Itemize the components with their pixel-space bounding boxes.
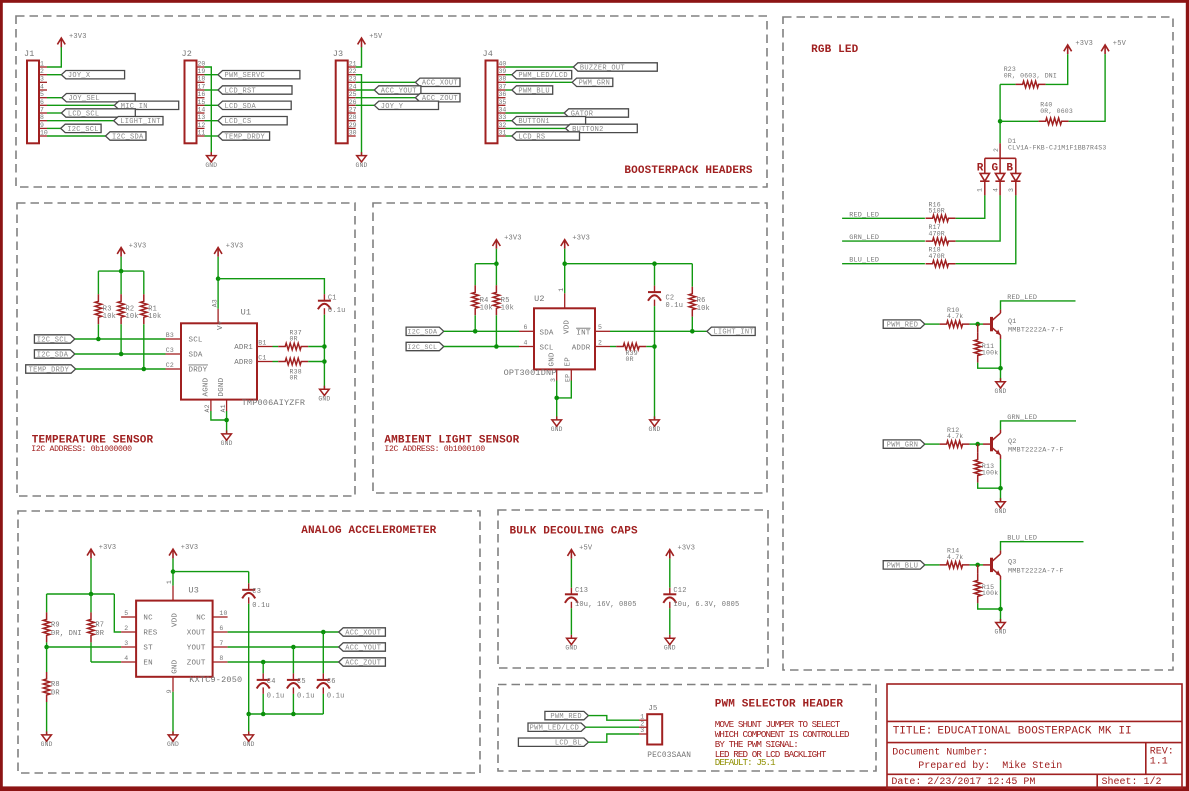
svg-text:SDA: SDA (189, 352, 203, 360)
svg-text:Date: 2/23/2017 12:45 PM: Date: 2/23/2017 12:45 PM (891, 776, 1035, 788)
svg-text:+3V3: +3V3 (1075, 40, 1093, 48)
svg-text:ACC_XOUT: ACC_XOUT (345, 629, 381, 637)
svg-text:C3: C3 (252, 588, 261, 596)
net flag LCD_RST (205, 86, 293, 96)
wire VDD branch to C2/R6 (565, 263, 693, 265)
power +3V3 at J1 (57, 33, 86, 47)
svg-text:ACC_YOUT: ACC_YOUT (345, 644, 381, 652)
svg-text:GND: GND (172, 659, 180, 673)
svg-text:10k: 10k (126, 313, 139, 321)
svg-text:PEC03SAAN: PEC03SAAN (647, 752, 691, 760)
svg-text:A1: A1 (220, 404, 227, 412)
svg-text:33: 33 (499, 114, 507, 121)
svg-text:BUTTON1: BUTTON1 (518, 118, 550, 126)
resistor R18 470R (926, 247, 956, 267)
net flag BUTTON1 (506, 117, 586, 127)
svg-text:GND: GND (318, 395, 330, 402)
net flag JOY_X (47, 71, 125, 81)
junction AGND/DGND (224, 418, 229, 423)
resistor R9 0R DNI (43, 594, 82, 647)
wire YOUT row (228, 646, 339, 648)
svg-text:ADR0: ADR0 (234, 359, 253, 367)
svg-text:4.7k: 4.7k (947, 554, 963, 561)
svg-text:1: 1 (640, 713, 644, 720)
net flag LIGHT_INT (J1) (47, 117, 163, 127)
svg-text:+5V: +5V (1113, 40, 1127, 48)
junction U2 GND/EP (554, 396, 559, 401)
resistor R17 470R (926, 224, 956, 244)
svg-text:5: 5 (40, 91, 44, 98)
svg-text:RES: RES (143, 630, 157, 638)
capacitor C4 0.1u (257, 662, 285, 714)
net flag GATOR (506, 109, 629, 119)
ground GND at U2 (551, 416, 563, 433)
svg-text:36: 36 (499, 91, 507, 98)
wire U3 pin9 to GND (172, 692, 174, 735)
svg-text:+3V3: +3V3 (226, 243, 244, 251)
section box PWM SELECTOR HEADER (498, 685, 876, 772)
resistor R8 0R (43, 647, 60, 735)
svg-text:4.7k: 4.7k (947, 433, 963, 440)
svg-text:1: 1 (977, 188, 984, 192)
capacitor C3 0.1u (242, 572, 270, 714)
net flag PWM_GRN (Q stage) (883, 440, 939, 450)
wire GRN_LED to D1 (842, 240, 925, 242)
svg-text:VDD: VDD (563, 320, 571, 334)
svg-text:32: 32 (499, 122, 507, 129)
svg-text:9: 9 (166, 689, 173, 693)
net flag LCD_SDA (205, 101, 292, 111)
ground GND at C12 (664, 635, 676, 652)
svg-text:OPT3001DNP: OPT3001DNP (504, 368, 557, 378)
wire pullup rail (98, 270, 143, 272)
svg-text:J1: J1 (24, 49, 35, 59)
svg-text:0R: 0R (95, 630, 104, 638)
junction R1 on DRDY (142, 367, 147, 372)
svg-text:J4: J4 (483, 49, 494, 59)
svg-text:EP: EP (564, 357, 572, 367)
connector J4 (483, 49, 507, 143)
junction pullup rail U2 (494, 261, 499, 266)
svg-text:34: 34 (499, 106, 507, 113)
svg-text:7: 7 (219, 640, 223, 647)
svg-text:12: 12 (198, 122, 206, 129)
svg-text:VDD: VDD (172, 613, 180, 627)
svg-text:JOY_SEL: JOY_SEL (68, 95, 100, 103)
svg-text:PWM_LED/LCD: PWM_LED/LCD (518, 72, 568, 80)
svg-text:MMBT2222A-7-F: MMBT2222A-7-F (1008, 327, 1064, 335)
wire rail R9/R7 (47, 593, 115, 595)
power +3V3 at U2 (561, 235, 590, 249)
svg-text:GND: GND (565, 645, 577, 652)
svg-text:14: 14 (198, 106, 206, 113)
svg-text:KXTC9-2050: KXTC9-2050 (189, 675, 242, 685)
svg-text:GND: GND (356, 162, 368, 169)
power +3V3 at pullups U1 (117, 243, 146, 257)
power +3V3 at R23 (1064, 40, 1093, 54)
svg-text:Q1: Q1 (1008, 318, 1017, 326)
connector J1 (24, 49, 48, 143)
svg-text:EDUCATIONAL BOOSTERPACK MK II: EDUCATIONAL BOOSTERPACK MK II (937, 725, 1131, 737)
svg-text:LCD_SDA: LCD_SDA (225, 103, 257, 111)
svg-text:10: 10 (40, 129, 48, 136)
net flag PWM_SERVC (205, 71, 300, 81)
svg-text:8: 8 (40, 114, 44, 121)
svg-text:29: 29 (349, 122, 357, 129)
svg-text:PWM_BLU: PWM_BLU (518, 87, 550, 95)
ground GND at R8 (41, 731, 53, 748)
svg-text:7: 7 (40, 106, 44, 113)
IC U3 KXTC9-2050 (121, 580, 228, 693)
junction R5 on SCL (494, 344, 499, 349)
wire R7 to EN (91, 661, 121, 663)
svg-text:3: 3 (640, 727, 644, 734)
power +3V3 at U3 (169, 544, 198, 558)
net flag LCD_RS (506, 132, 580, 142)
wire J3 pin22 to GND (356, 75, 362, 156)
wire emitter Q1 to GND (1000, 339, 1002, 382)
wire +3V3 down to U3 VDD (172, 558, 174, 585)
net flag PWM_BLU (Q stage) (883, 561, 939, 571)
svg-text:10k: 10k (148, 313, 161, 321)
svg-text:0.1u: 0.1u (327, 692, 345, 700)
ground GND at C3 (243, 731, 255, 748)
svg-text:100k: 100k (982, 349, 998, 356)
net flag PWM_GRN (J4) (506, 78, 613, 88)
svg-text:GND: GND (41, 741, 53, 748)
svg-text:1.1: 1.1 (1150, 757, 1168, 768)
wire VDD branch to C3 (173, 571, 249, 573)
ground GND at Q3 (995, 619, 1007, 636)
svg-text:B: B (1006, 162, 1013, 174)
junction C2/R39 (652, 344, 657, 349)
svg-text:XOUT: XOUT (187, 630, 206, 638)
wire collector Q3 to BLU_LED (1001, 542, 1084, 551)
capacitor C13 10u (565, 559, 637, 635)
svg-text:SDA: SDA (540, 329, 554, 337)
ground GND at U1 (221, 430, 233, 447)
net flag LIGHT_INT (U2) (707, 327, 755, 337)
junction V+ branch (216, 276, 221, 281)
junction C6 on XOUT (321, 630, 326, 635)
svg-text:0R: 0R (290, 335, 298, 342)
net flag ACC_XOUT (J3) (356, 78, 460, 88)
svg-text:10k: 10k (480, 305, 493, 313)
svg-text:GND: GND (995, 629, 1007, 636)
svg-text:I2C_SCL: I2C_SCL (37, 336, 69, 344)
wire +3V3 to pullup rail U2 (495, 249, 497, 264)
svg-text:GND: GND (243, 741, 255, 748)
resistor R7 0R (88, 594, 105, 662)
svg-text:C6: C6 (327, 678, 336, 686)
net flag I2C_SCL (U2) (406, 342, 519, 351)
wire DGND to GND (226, 411, 228, 434)
svg-text:0R, DNI: 0R, DNI (51, 630, 82, 638)
resistor R39 0R (610, 343, 655, 363)
connector J2 (182, 49, 206, 143)
svg-text:PWM_LED/LCD: PWM_LED/LCD (530, 725, 580, 733)
svg-text:GND: GND (205, 162, 217, 169)
net flag PWM_RED (J5) (545, 711, 639, 721)
svg-text:0R: 0R (51, 689, 60, 697)
section box TEMPERATURE SENSOR (17, 203, 355, 496)
net flag TEMP_DRDY (J2) (205, 132, 270, 142)
svg-text:ANALOG ACCELEROMETER: ANALOG ACCELEROMETER (301, 525, 436, 537)
svg-text:MMBT2222A-7-F: MMBT2222A-7-F (1008, 567, 1064, 575)
svg-text:3: 3 (1008, 188, 1015, 192)
transistor Q1 MMBT2222A-7-F (983, 310, 1064, 340)
power +5V at R40 (1101, 40, 1126, 54)
ground GND at C1 (318, 386, 330, 403)
svg-text:31: 31 (499, 129, 507, 136)
svg-text:C5: C5 (297, 678, 306, 686)
svg-text:17: 17 (198, 83, 206, 90)
power +3V3 at R9/R7 (87, 544, 116, 558)
svg-text:30: 30 (349, 129, 357, 136)
svg-text:3: 3 (124, 640, 128, 647)
wire +3V3 to rail U3 (90, 558, 92, 594)
junction R6 on INT (690, 329, 695, 334)
svg-text:I2C_SDA: I2C_SDA (112, 133, 144, 141)
resistor R12 4.7k (940, 427, 983, 448)
svg-text:0.1u: 0.1u (666, 302, 684, 310)
power +5V at C13 (568, 545, 593, 559)
wire C1 to GND rail (323, 315, 325, 390)
net flag ACC_ZOUT (U3) (339, 658, 386, 668)
svg-text:JOY_Y: JOY_Y (381, 103, 404, 111)
junction R9/ST (44, 645, 49, 650)
svg-text:Sheet: 1/2: Sheet: 1/2 (1102, 776, 1162, 788)
IC U1 TMP006AIYZFR (166, 299, 273, 412)
svg-text:3: 3 (40, 76, 44, 83)
svg-text:5: 5 (124, 610, 128, 617)
svg-text:0R: 0R (626, 356, 634, 363)
svg-text:ACC_XOUT: ACC_XOUT (422, 80, 458, 88)
section box BOOSTERPACK HEADERS (16, 16, 767, 187)
svg-text:I2C ADDRESS: 0b1000000: I2C ADDRESS: 0b1000000 (31, 444, 132, 454)
svg-text:PWM_RED: PWM_RED (550, 713, 582, 721)
svg-text:I2C ADDRESS: 0b1000100: I2C ADDRESS: 0b1000100 (384, 444, 485, 454)
net flag I2C_SDA (J1) (47, 132, 146, 142)
power +3V3 at U1 (214, 243, 243, 257)
junction C2 top (652, 261, 657, 266)
resistor R38 0R (273, 358, 325, 381)
svg-text:+3V3: +3V3 (678, 545, 696, 553)
svg-text:10u, 6.3V, 0805: 10u, 6.3V, 0805 (673, 601, 739, 609)
svg-text:TITLE:: TITLE: (893, 725, 933, 737)
svg-text:8: 8 (219, 655, 223, 662)
svg-text:NC: NC (196, 615, 206, 623)
svg-text:LCD_SCL: LCD_SCL (68, 110, 100, 118)
resistor R6 10k (689, 264, 710, 332)
LED D1 CLV1A-FKB-CJ1M1F1BB7R4S3 (977, 138, 1107, 196)
svg-text:BLU_LED: BLU_LED (849, 257, 879, 265)
svg-text:I2C_SCL: I2C_SCL (407, 343, 437, 351)
svg-text:6: 6 (524, 324, 528, 331)
svg-text:J5: J5 (648, 705, 658, 713)
svg-text:22: 22 (349, 68, 357, 75)
svg-text:1: 1 (558, 288, 565, 292)
connector J5 PEC03SAAN (639, 705, 662, 744)
wire bus to GND (248, 714, 250, 735)
svg-text:0.1u: 0.1u (297, 692, 315, 700)
svg-text:Document Number:: Document Number: (892, 747, 988, 759)
svg-text:470R: 470R (929, 253, 945, 260)
svg-text:ACC_ZOUT: ACC_ZOUT (345, 659, 381, 667)
ground GND at Q1 (995, 378, 1007, 395)
svg-text:RGB LED: RGB LED (811, 44, 859, 56)
svg-text:GND: GND (995, 508, 1007, 515)
junction R37 out (322, 344, 327, 349)
junction pullup rail (119, 269, 124, 274)
wire V+ branch to C1 (218, 279, 324, 295)
svg-text:PWM_SERVC: PWM_SERVC (225, 72, 266, 80)
svg-text:R7: R7 (95, 621, 104, 629)
power +5V at J3 (358, 33, 383, 47)
svg-text:GRN_LED: GRN_LED (849, 234, 879, 242)
svg-text:11: 11 (198, 129, 206, 136)
junction base Q3 (975, 563, 980, 568)
junction R2 on SDA (119, 352, 124, 357)
svg-text:C3: C3 (166, 347, 174, 354)
junction rail at R7 (89, 592, 94, 597)
capacitor C6 0.1u (317, 632, 345, 714)
svg-text:Q3: Q3 (1008, 559, 1017, 567)
svg-text:LCD_RS: LCD_RS (518, 133, 545, 141)
svg-text:U1: U1 (241, 308, 252, 318)
svg-text:19: 19 (198, 68, 206, 75)
svg-text:21: 21 (349, 60, 357, 67)
resistor R11 100k (974, 324, 1000, 368)
capacitor C12 10u (663, 559, 739, 635)
resistor R37 0R (273, 329, 325, 350)
ground GND at C2 (649, 416, 661, 433)
svg-text:GRN_LED: GRN_LED (1007, 414, 1037, 422)
svg-text:25: 25 (349, 91, 357, 98)
junction R3 on SCL (96, 337, 101, 342)
svg-text:2: 2 (124, 625, 128, 632)
svg-text:13: 13 (198, 114, 206, 121)
wire J2 pin20 to GND (205, 67, 212, 155)
svg-text:C12: C12 (673, 587, 686, 595)
svg-text:39: 39 (499, 68, 507, 75)
svg-text:100k: 100k (982, 469, 998, 476)
svg-text:+3V3: +3V3 (181, 544, 199, 552)
junction emitter Q3 (998, 607, 1003, 612)
resistor R5 10k (493, 264, 514, 347)
svg-text:BLU_LED: BLU_LED (1007, 535, 1037, 543)
svg-text:TMP006AIYZFR: TMP006AIYZFR (242, 398, 306, 408)
svg-text:C1: C1 (328, 294, 337, 302)
svg-text:6: 6 (40, 99, 44, 106)
svg-text:I2C_SCL: I2C_SCL (67, 126, 99, 134)
ground GND at C13 (565, 635, 577, 652)
resistor R1 10k (141, 271, 162, 369)
svg-text:26: 26 (349, 99, 357, 106)
svg-text:LCD_CS: LCD_CS (225, 118, 252, 126)
net flag PWM_BLU (J4) (506, 86, 553, 96)
svg-text:R8: R8 (51, 681, 60, 689)
svg-text:LIGHT_INT: LIGHT_INT (713, 329, 754, 337)
svg-text:10k: 10k (697, 305, 710, 313)
svg-text:DGND: DGND (218, 377, 226, 396)
ground GND at Q2 (995, 498, 1007, 515)
svg-text:SCL: SCL (189, 337, 203, 345)
svg-text:+5V: +5V (579, 545, 593, 553)
svg-text:1: 1 (40, 60, 44, 67)
junction C5 bus (291, 712, 296, 717)
svg-text:A2: A2 (204, 404, 211, 412)
svg-text:38: 38 (499, 76, 507, 83)
capacitor C5 0.1u (287, 647, 315, 714)
svg-text:LCD_BL: LCD_BL (555, 740, 582, 748)
net flag MIC_IN (47, 101, 179, 111)
svg-text:27: 27 (349, 106, 357, 113)
svg-text:100k: 100k (982, 590, 998, 597)
svg-text:+3V3: +3V3 (504, 235, 522, 243)
svg-text:10u, 16V, 0805: 10u, 16V, 0805 (575, 601, 637, 609)
wire R23 node down (999, 84, 1001, 143)
wire U2 GND/EP to GND (557, 381, 572, 398)
svg-text:U2: U2 (534, 294, 545, 304)
svg-text:A3: A3 (211, 299, 218, 307)
svg-text:PWM_GRN: PWM_GRN (887, 442, 919, 450)
svg-text:10k: 10k (103, 313, 116, 321)
section box ANALOG ACCELEROMETER (18, 511, 480, 773)
wire +3V3 down to U1 V+ (217, 257, 219, 309)
junction VDD branch (562, 261, 567, 266)
junction base Q2 (975, 442, 980, 447)
svg-text:2: 2 (40, 68, 44, 75)
wire AGND to DGND (211, 411, 227, 420)
svg-text:+5V: +5V (369, 33, 383, 41)
junction emitter Q2 (998, 486, 1003, 491)
svg-text:CLV1A-FKB-CJ1M1F1BB7R4S3: CLV1A-FKB-CJ1M1F1BB7R4S3 (1008, 144, 1106, 151)
transistor Q2 MMBT2222A-7-F (983, 430, 1064, 460)
wire GND bus caps (249, 713, 324, 715)
resistor R10 4.7k (940, 307, 983, 328)
junction C3 bus (246, 712, 251, 717)
svg-text:4: 4 (992, 188, 999, 192)
wire J1 pin1 to +3V3 (47, 47, 61, 67)
junction C4 bus (261, 712, 266, 717)
net flag BUTTON2 (506, 124, 638, 134)
junction C5 on YOUT (291, 645, 296, 650)
svg-text:J2: J2 (182, 49, 193, 59)
svg-text:35: 35 (499, 99, 507, 106)
svg-text:I2C_SDA: I2C_SDA (407, 328, 437, 336)
svg-text:ACC_YOUT: ACC_YOUT (381, 87, 417, 95)
wire J3 pin21 to +5V (356, 47, 362, 67)
net flag ACC_YOUT (U3) (339, 643, 386, 653)
svg-text:ST: ST (143, 645, 153, 653)
svg-text:4: 4 (124, 655, 128, 662)
svg-text:RED_LED: RED_LED (849, 211, 879, 219)
svg-text:Prepared by: Mike Stein: Prepared by: Mike Stein (918, 760, 1062, 772)
svg-text:V+: V+ (217, 320, 225, 330)
svg-text:LCD_RST: LCD_RST (225, 87, 257, 95)
svg-text:PWM_GRN: PWM_GRN (579, 80, 611, 88)
net flag ACC_XOUT (U3) (339, 628, 386, 638)
wire emitter Q2 to GND (1000, 459, 1002, 502)
svg-text:JOY_X: JOY_X (68, 72, 91, 80)
svg-text:0R, 0603, DNI: 0R, 0603, DNI (1004, 72, 1057, 79)
wire rail to RES (114, 594, 121, 632)
net flag JOY_SEL (47, 94, 135, 104)
net flag TEMP_DRDY (U1) (26, 365, 166, 375)
svg-text:RED_LED: RED_LED (1007, 294, 1037, 302)
svg-text:2: 2 (993, 148, 1000, 152)
